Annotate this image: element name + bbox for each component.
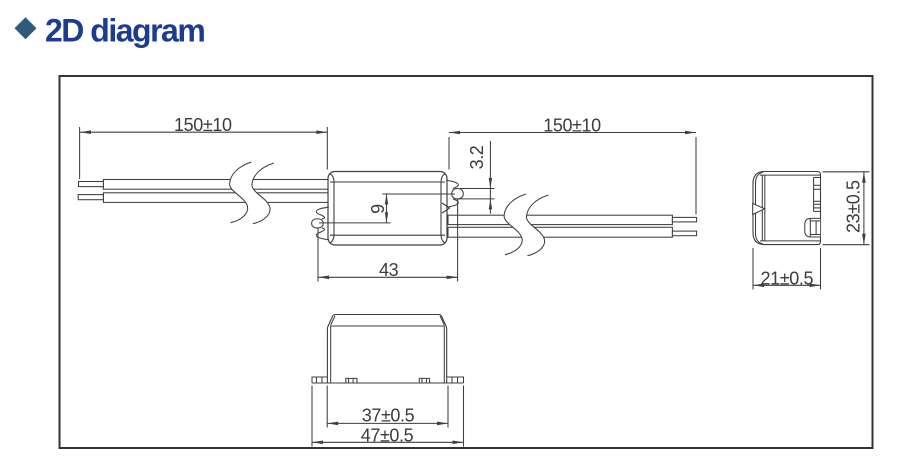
wire nipple end-on outline — [805, 218, 820, 237]
dimension 150±10 left: extension line at wire end — [79, 127, 81, 179]
svg-text:150±10: 150±10 — [543, 116, 601, 136]
dimension 37±0.5: dimension line — [327, 422, 448, 424]
dimension 3.2: vertical dimension line — [489, 141, 491, 214]
right lead wire 2 bare conductor — [672, 231, 696, 236]
dimension 47±0.5: extension lines — [311, 386, 313, 447]
module body outer shell — [328, 172, 447, 246]
right gland pill slot — [452, 189, 464, 199]
nipple end-on inner lines — [815, 221, 817, 235]
dimension 150±10 right: extension line at wire end — [695, 137, 697, 215]
right cable gland upper wave — [446, 180, 458, 188]
front view inner right chamfer — [440, 316, 444, 325]
svg-text:9: 9 — [368, 204, 388, 214]
dimension 21±0.5: left extension line — [752, 248, 754, 290]
end view inner wall double line — [761, 175, 763, 241]
dimension 21±0.5: right extension line — [820, 248, 822, 290]
left lead wire 1 bare conductor — [79, 182, 104, 187]
left cable gland lower wave — [316, 228, 329, 240]
end view inner top line — [760, 174, 821, 176]
front view inner right wall — [443, 326, 445, 383]
dimension 43: left extension line — [317, 228, 319, 282]
right lead wire 1 bare conductor — [672, 217, 696, 222]
right cable gland lower wave — [446, 199, 458, 207]
left lead wire 2 insulation — [103, 193, 329, 203]
front view inner left chamfer — [331, 316, 335, 325]
dimension 23±0.5: bottom extension line — [823, 244, 870, 246]
right lead wire 1 insulation — [448, 215, 672, 224]
base plate right ear — [447, 377, 464, 383]
svg-text:2D diagram: 2D diagram — [45, 13, 204, 49]
right ear slot ticks — [451, 377, 453, 383]
dimension 9: lower reference line — [319, 222, 391, 224]
front view inner left wall — [330, 326, 332, 383]
dimension 23±0.5: top extension line — [823, 171, 870, 173]
dimension 43: dimension line — [318, 276, 458, 278]
svg-text:21±0.5: 21±0.5 — [761, 269, 814, 289]
svg-text:37±0.5: 37±0.5 — [362, 406, 415, 426]
terminal block stack left edge — [813, 178, 815, 212]
dimension 150±10 right: extension line at body edge — [448, 137, 450, 170]
dimension 21±0.5: dimension line — [753, 284, 821, 286]
dimension 150±10 left: arrowheads — [80, 130, 91, 134]
dimension 43: arrowheads — [318, 276, 329, 280]
end view outer outline — [753, 172, 821, 245]
dimension 150±10 right: dimension line — [449, 132, 696, 134]
dimension 3.2: upper reference line — [460, 188, 495, 190]
body lid seam lower line — [330, 234, 445, 236]
dimension 47±0.5: arrowheads — [312, 441, 323, 445]
left foot — [346, 378, 357, 383]
right wire break symbol (double S) — [504, 194, 548, 256]
right foot — [419, 378, 429, 383]
dimension 9: arrowheads — [385, 194, 388, 205]
dimension 9: upper reference line — [382, 193, 455, 195]
svg-text:150±10: 150±10 — [174, 115, 232, 135]
dimension 23±0.5: dimension line — [863, 172, 865, 245]
front view lid seam line — [330, 325, 445, 327]
dimension 3.2: lower reference line — [457, 198, 495, 200]
end view triangular notch — [753, 203, 765, 214]
left cable gland upper wave — [316, 207, 329, 219]
svg-text:23±0.5: 23±0.5 — [843, 180, 863, 233]
dimension 21±0.5: arrowheads — [753, 284, 764, 288]
left gland pill slot — [312, 219, 324, 228]
dimension 150±10 left: dimension line — [80, 131, 327, 133]
dimension 3.2: arrowheads — [489, 178, 492, 189]
title diamond bullet — [15, 17, 37, 39]
right foot ticks — [421, 378, 423, 383]
left lead wire 1 insulation — [103, 180, 329, 190]
dimension 9: vertical dimension line — [386, 194, 388, 223]
dimension 23±0.5: arrowheads — [862, 172, 866, 183]
left lead wire 2 bare conductor — [78, 195, 103, 200]
chevron inside right cap — [442, 203, 450, 213]
nipple end-on inner vertical — [809, 218, 811, 237]
left end cap inner edge — [330, 174, 334, 243]
body lid seam upper line — [330, 181, 445, 183]
left wire break symbol (double S) — [230, 162, 274, 224]
right lead wire 2 insulation — [448, 227, 672, 237]
dimension 150±10 right: arrowheads — [449, 131, 460, 135]
drawing frame border — [60, 76, 873, 448]
end view inner bottom line — [760, 240, 821, 242]
end view cap inner edge — [756, 172, 764, 244]
front view outer outline — [327, 315, 446, 384]
right end cap inner edge — [441, 174, 445, 243]
dimension 47±0.5: dimension line — [312, 441, 464, 443]
base plate bottom edge — [312, 382, 464, 384]
left ear slot ticks — [315, 377, 317, 383]
terminal block stack dividers — [814, 177, 821, 179]
left foot ticks — [348, 378, 350, 383]
svg-text:43: 43 — [379, 260, 399, 280]
dimension 37±0.5: extension lines — [326, 386, 328, 428]
base plate left ear — [312, 377, 327, 383]
svg-text:47±0.5: 47±0.5 — [361, 425, 414, 445]
dimension 150±10 left: extension line at body edge — [326, 127, 328, 170]
dimension 43: right extension line — [457, 200, 459, 282]
svg-text:3.2: 3.2 — [467, 145, 487, 169]
dimension 37±0.5: arrowheads — [327, 422, 338, 426]
